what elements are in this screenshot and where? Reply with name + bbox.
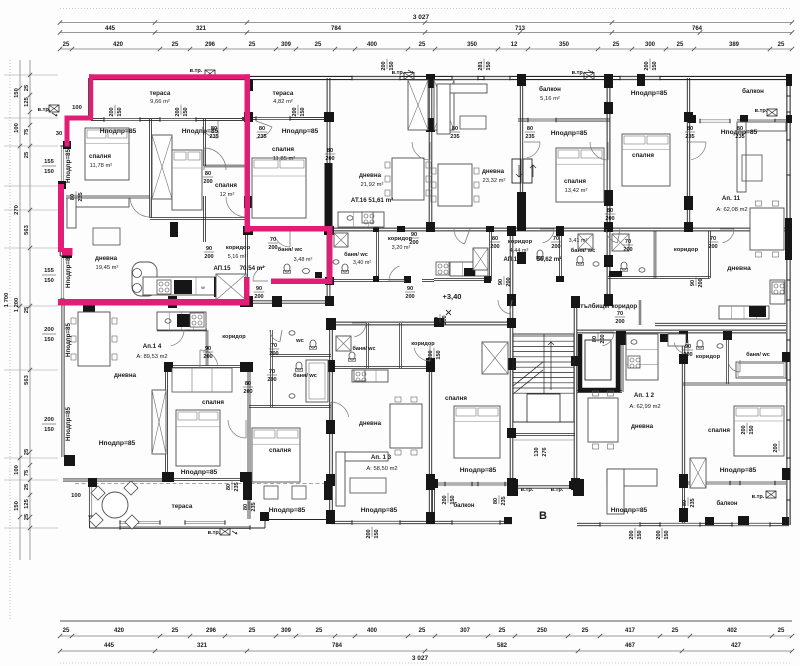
svg-text:в.тр.: в.тр. <box>208 530 221 536</box>
svg-text:баня/ wc: баня/ wc <box>353 345 376 352</box>
svg-text:80: 80 <box>327 148 333 154</box>
svg-text:200: 200 <box>551 244 560 250</box>
svg-text:70: 70 <box>270 237 276 243</box>
svg-text:5,16 m²: 5,16 m² <box>540 96 560 102</box>
svg-text:25: 25 <box>316 628 323 634</box>
svg-text:19,45 m²: 19,45 m² <box>96 265 119 271</box>
svg-text:90: 90 <box>411 232 417 238</box>
svg-text:11,85 m²: 11,85 m² <box>273 156 296 162</box>
svg-text:80: 80 <box>452 126 458 132</box>
svg-text:баня/ wc: баня/ wc <box>293 372 317 379</box>
svg-text:70: 70 <box>710 236 716 242</box>
svg-text:150: 150 <box>389 61 395 70</box>
svg-text:56,62 m²: 56,62 m² <box>537 256 562 263</box>
svg-text:коридор: коридор <box>411 341 435 347</box>
svg-text:150: 150 <box>44 427 54 433</box>
svg-text:в.тр.: в.тр. <box>755 108 768 114</box>
svg-text:125: 125 <box>24 498 30 508</box>
svg-text:дневна: дневна <box>359 420 382 427</box>
svg-text:235: 235 <box>257 134 266 140</box>
svg-text:дневна: дневна <box>727 265 751 272</box>
svg-text:200: 200 <box>405 294 414 300</box>
svg-text:стълбище/ коридор: стълбище/ коридор <box>577 303 638 310</box>
svg-text:3,40 m²: 3,40 m² <box>353 260 371 266</box>
svg-text:А: 62,08 m2: А: 62,08 m2 <box>716 207 747 213</box>
svg-text:400: 400 <box>367 628 378 634</box>
svg-text:коридор: коридор <box>222 334 246 340</box>
svg-text:спалня: спалня <box>269 447 291 454</box>
svg-text:150: 150 <box>652 61 658 70</box>
svg-text:200: 200 <box>409 240 418 246</box>
svg-text:80: 80 <box>527 126 533 132</box>
svg-text:дневна: дневна <box>359 172 382 179</box>
svg-text:300: 300 <box>645 42 656 48</box>
svg-text:25: 25 <box>613 42 620 48</box>
svg-text:В: В <box>539 510 547 522</box>
svg-text:200: 200 <box>204 254 213 260</box>
svg-text:80: 80 <box>259 126 265 132</box>
svg-text:400: 400 <box>367 42 378 48</box>
svg-text:150: 150 <box>300 107 306 116</box>
svg-text:коридор: коридор <box>696 354 721 360</box>
svg-text:балкон: балкон <box>742 88 764 95</box>
svg-text:Нподпр=85: Нподпр=85 <box>65 323 72 357</box>
svg-text:25: 25 <box>778 628 785 634</box>
svg-text:296: 296 <box>205 42 216 48</box>
svg-text:25: 25 <box>677 42 684 48</box>
svg-text:150: 150 <box>183 107 189 116</box>
svg-text:75: 75 <box>24 128 30 135</box>
svg-text:12 m²: 12 m² <box>220 192 235 198</box>
svg-text:25: 25 <box>24 84 30 91</box>
svg-text:Нподпр=85: Нподпр=85 <box>720 467 757 474</box>
svg-text:235: 235 <box>251 502 257 511</box>
svg-text:250: 250 <box>537 628 548 634</box>
svg-text:150: 150 <box>664 530 670 539</box>
svg-text:80: 80 <box>492 236 498 242</box>
svg-text:баня/ wc: баня/ wc <box>746 351 770 358</box>
svg-text:80: 80 <box>205 171 211 177</box>
svg-text:200: 200 <box>698 278 704 287</box>
svg-text:417: 417 <box>625 628 636 634</box>
svg-text:спалня: спалня <box>632 152 654 159</box>
svg-text:150: 150 <box>637 530 643 539</box>
svg-text:Нподпр=85: Нподпр=85 <box>361 507 398 514</box>
svg-text:321: 321 <box>196 26 207 32</box>
svg-text:А: 62,99 m2: А: 62,99 m2 <box>629 404 660 410</box>
svg-text:155: 155 <box>44 159 54 165</box>
svg-text:80: 80 <box>243 504 249 510</box>
svg-text:582: 582 <box>497 643 508 649</box>
svg-text:баня/ wc: баня/ wc <box>344 251 368 258</box>
svg-text:Ап. 1 2: Ап. 1 2 <box>634 392 655 399</box>
svg-text:200: 200 <box>644 61 650 70</box>
svg-text:200: 200 <box>44 327 54 333</box>
svg-text:235: 235 <box>501 496 507 505</box>
svg-text:коридор: коридор <box>226 245 251 251</box>
svg-text:АП.17: АП.17 <box>504 257 522 263</box>
svg-text:784: 784 <box>331 26 342 32</box>
svg-text:100: 100 <box>14 123 20 133</box>
svg-text:баня/ wc: баня/ wc <box>278 246 303 253</box>
svg-text:90: 90 <box>685 344 691 350</box>
svg-text:дневна: дневна <box>482 168 505 175</box>
svg-text:307: 307 <box>460 628 471 634</box>
svg-text:+3,40: +3,40 <box>443 292 462 301</box>
svg-text:90: 90 <box>205 346 211 352</box>
svg-text:200: 200 <box>615 319 624 325</box>
svg-text:80: 80 <box>682 500 688 506</box>
svg-text:100: 100 <box>14 465 20 475</box>
svg-text:спалня: спалня <box>445 395 467 402</box>
svg-text:90: 90 <box>434 317 440 323</box>
svg-text:в.тр.: в.тр. <box>38 107 51 113</box>
svg-text:200: 200 <box>203 354 212 360</box>
svg-text:70: 70 <box>269 369 275 375</box>
svg-text:Нподпр=85: Нподпр=85 <box>282 128 319 135</box>
svg-text:784: 784 <box>332 643 343 649</box>
svg-text:25: 25 <box>778 42 785 48</box>
svg-text:Нподпр=85: Нподпр=85 <box>611 507 648 514</box>
svg-text:309: 309 <box>281 42 292 48</box>
svg-text:235: 235 <box>735 134 744 140</box>
svg-text:90: 90 <box>206 246 212 252</box>
svg-text:в.тр.: в.тр. <box>521 487 534 493</box>
svg-text:25: 25 <box>24 483 30 490</box>
svg-text:1 200: 1 200 <box>14 298 20 313</box>
svg-text:спалня: спалня <box>272 146 294 153</box>
svg-text:Нподпр=85: Нподпр=85 <box>551 130 588 137</box>
svg-text:70,54 m²: 70,54 m² <box>240 265 265 272</box>
svg-text:427: 427 <box>731 643 742 649</box>
svg-text:Нподпр=85: Нподпр=85 <box>99 440 136 447</box>
svg-text:80: 80 <box>687 126 693 132</box>
svg-text:563: 563 <box>24 224 30 234</box>
svg-text:90: 90 <box>690 280 696 286</box>
svg-text:12: 12 <box>511 42 518 48</box>
svg-text:200: 200 <box>254 294 263 300</box>
svg-text:Ап. 1 3: Ап. 1 3 <box>371 454 392 461</box>
svg-text:балкон: балкон <box>716 500 737 507</box>
svg-text:200: 200 <box>203 179 212 185</box>
svg-text:дневна: дневна <box>631 423 654 430</box>
svg-text:200: 200 <box>325 156 334 162</box>
svg-text:100: 100 <box>72 105 82 111</box>
svg-text:200: 200 <box>269 351 278 357</box>
svg-text:70: 70 <box>617 311 623 317</box>
svg-text:в.тр.: в.тр. <box>572 70 585 76</box>
svg-text:3,41 m²: 3,41 m² <box>569 238 588 244</box>
svg-text:25: 25 <box>172 628 179 634</box>
svg-text:200: 200 <box>506 277 512 286</box>
svg-text:Нподпр=85: Нподпр=85 <box>65 149 72 183</box>
svg-text:309: 309 <box>281 628 292 634</box>
svg-text:тераса: тераса <box>273 90 294 97</box>
svg-text:75: 75 <box>24 469 30 476</box>
svg-text:130: 130 <box>534 447 540 456</box>
svg-text:200: 200 <box>428 350 434 359</box>
svg-text:150: 150 <box>450 495 456 504</box>
svg-text:200: 200 <box>109 107 115 116</box>
svg-text:200: 200 <box>623 247 632 253</box>
svg-text:23,32 m²: 23,32 m² <box>483 178 506 184</box>
svg-text:25: 25 <box>315 42 322 48</box>
svg-text:296: 296 <box>206 628 217 634</box>
svg-text:4,82 m²: 4,82 m² <box>273 99 293 105</box>
svg-text:200: 200 <box>366 529 372 538</box>
svg-text:21,92 m²: 21,92 m² <box>361 182 384 188</box>
svg-text:150: 150 <box>749 425 755 434</box>
svg-text:дневна: дневна <box>95 255 118 262</box>
svg-text:70: 70 <box>553 236 559 242</box>
svg-text:w: w <box>200 285 205 290</box>
svg-text:445: 445 <box>105 26 116 32</box>
svg-text:спалня: спалня <box>564 178 586 185</box>
svg-text:200: 200 <box>175 107 181 116</box>
svg-text:235: 235 <box>234 482 240 491</box>
svg-text:420: 420 <box>113 42 124 48</box>
svg-text:270: 270 <box>14 205 20 215</box>
svg-text:25: 25 <box>582 628 589 634</box>
svg-text:713: 713 <box>515 26 526 32</box>
svg-text:спалня: спалня <box>202 399 224 406</box>
svg-text:в.тр.: в.тр. <box>190 68 203 74</box>
svg-text:коридор: коридор <box>508 239 533 245</box>
svg-text:3,20 m²: 3,20 m² <box>392 245 411 251</box>
svg-text:тераса: тераса <box>150 90 171 97</box>
svg-text:150: 150 <box>44 169 54 175</box>
svg-text:3 027: 3 027 <box>412 655 429 662</box>
svg-text:Ап.1 4: Ап.1 4 <box>143 343 162 350</box>
svg-text:спалня: спалня <box>215 182 237 189</box>
svg-text:в.тр.: в.тр. <box>551 487 564 493</box>
svg-text:200: 200 <box>600 334 606 343</box>
svg-text:25: 25 <box>499 628 506 634</box>
svg-text:467: 467 <box>625 643 636 649</box>
svg-text:3,48 m²: 3,48 m² <box>294 257 313 263</box>
svg-text:Нподпр=85: Нподпр=85 <box>65 407 72 441</box>
svg-text:402: 402 <box>727 628 738 634</box>
svg-text:276: 276 <box>542 447 548 456</box>
svg-text:5,16 m²: 5,16 m² <box>228 254 247 260</box>
svg-text:Нподпр=85: Нподпр=85 <box>181 469 218 476</box>
svg-text:АП.15: АП.15 <box>214 266 232 272</box>
svg-text:200: 200 <box>708 244 717 250</box>
svg-text:350: 350 <box>467 42 478 48</box>
svg-text:420: 420 <box>114 628 125 634</box>
svg-text:баня/ wc: баня/ wc <box>571 247 596 254</box>
svg-text:235: 235 <box>525 134 534 140</box>
svg-text:25: 25 <box>419 42 426 48</box>
svg-text:Нподпр=85: Нподпр=85 <box>631 90 668 97</box>
svg-text:спалня: спалня <box>708 427 730 434</box>
svg-text:Нподпр=85: Нподпр=85 <box>460 467 497 474</box>
svg-text:9,66 m²: 9,66 m² <box>150 99 170 105</box>
svg-text:321: 321 <box>197 643 208 649</box>
svg-text:Нподпр=85: Нподпр=85 <box>65 254 72 288</box>
svg-text:200: 200 <box>741 425 747 434</box>
svg-text:90: 90 <box>407 286 413 292</box>
svg-text:200: 200 <box>656 530 662 539</box>
svg-text:200: 200 <box>44 417 54 423</box>
svg-text:25: 25 <box>63 628 70 634</box>
svg-text:125: 125 <box>24 96 30 106</box>
svg-text:150: 150 <box>117 107 123 116</box>
svg-text:235: 235 <box>450 134 459 140</box>
svg-text:90: 90 <box>256 286 262 292</box>
svg-text:тераса: тераса <box>172 503 193 510</box>
svg-text:235: 235 <box>209 134 218 140</box>
svg-text:150: 150 <box>486 61 492 70</box>
svg-text:200: 200 <box>442 315 448 324</box>
svg-text:80: 80 <box>70 194 76 200</box>
svg-text:80: 80 <box>493 498 499 504</box>
svg-text:235: 235 <box>685 134 694 140</box>
svg-text:коридор: коридор <box>674 247 699 253</box>
svg-text:200: 200 <box>267 377 276 383</box>
svg-text:в.тр.: в.тр. <box>752 494 765 500</box>
svg-text:150: 150 <box>436 350 442 359</box>
svg-text:25: 25 <box>172 42 179 48</box>
svg-text:235: 235 <box>690 498 696 507</box>
svg-text:30: 30 <box>56 131 62 137</box>
svg-text:80: 80 <box>592 336 598 342</box>
svg-text:25: 25 <box>419 628 426 634</box>
svg-text:80: 80 <box>737 126 743 132</box>
svg-text:спалня: спалня <box>89 153 111 160</box>
svg-text:80: 80 <box>226 484 232 490</box>
svg-text:А: 89,53 m2: А: 89,53 m2 <box>136 354 167 360</box>
svg-text:wc: wc <box>295 338 305 344</box>
svg-text:200: 200 <box>773 443 779 452</box>
svg-text:11,78 m²: 11,78 m² <box>90 163 113 169</box>
svg-text:80: 80 <box>245 381 251 387</box>
svg-text:563: 563 <box>24 374 30 384</box>
svg-text:200: 200 <box>629 530 635 539</box>
svg-text:25: 25 <box>24 513 30 520</box>
svg-text:25: 25 <box>672 628 679 634</box>
svg-text:150: 150 <box>374 529 380 538</box>
svg-text:200: 200 <box>442 495 448 504</box>
svg-text:Нподпр=85: Нподпр=85 <box>269 507 306 514</box>
svg-text:3 027: 3 027 <box>413 14 430 21</box>
svg-text:Ап. 11: Ап. 11 <box>722 195 741 202</box>
svg-text:155: 155 <box>44 268 54 274</box>
svg-text:200: 200 <box>381 61 387 70</box>
svg-text:25: 25 <box>249 628 256 634</box>
svg-text:200: 200 <box>268 245 277 251</box>
svg-text:13,42 m²: 13,42 m² <box>565 188 588 194</box>
svg-text:80: 80 <box>607 208 613 214</box>
svg-text:балкон: балкон <box>453 502 474 509</box>
svg-text:70: 70 <box>625 239 631 245</box>
svg-text:200: 200 <box>605 216 614 222</box>
svg-text:150: 150 <box>14 88 20 98</box>
svg-text:70: 70 <box>271 343 277 349</box>
svg-text:200: 200 <box>243 389 252 395</box>
svg-text:25: 25 <box>249 42 256 48</box>
svg-text:90: 90 <box>498 279 504 285</box>
svg-text:25: 25 <box>24 151 30 158</box>
svg-text:25: 25 <box>63 42 70 48</box>
svg-text:200: 200 <box>683 352 692 358</box>
svg-text:350: 350 <box>559 42 570 48</box>
svg-text:235: 235 <box>78 192 84 201</box>
svg-text:балкон: балкон <box>539 86 561 93</box>
svg-text:4,44 m²: 4,44 m² <box>510 248 529 254</box>
svg-text:150: 150 <box>44 278 54 284</box>
svg-text:281: 281 <box>478 61 484 70</box>
svg-text:25: 25 <box>24 448 30 455</box>
svg-text:200: 200 <box>292 107 298 116</box>
svg-text:200: 200 <box>490 244 499 250</box>
svg-text:дневна: дневна <box>114 372 137 379</box>
svg-text:Нподпр=85: Нподпр=85 <box>100 128 137 135</box>
svg-text:150: 150 <box>44 337 54 343</box>
svg-text:1 700: 1 700 <box>4 293 10 308</box>
svg-text:А: 58,50 m2: А: 58,50 m2 <box>366 466 397 472</box>
svg-text:100: 100 <box>71 493 81 499</box>
svg-text:150: 150 <box>14 501 20 511</box>
svg-text:80: 80 <box>211 126 217 132</box>
svg-text:АТ.16 51,61 m²: АТ.16 51,61 m² <box>351 197 393 204</box>
svg-text:445: 445 <box>104 643 115 649</box>
svg-text:389: 389 <box>729 42 740 48</box>
